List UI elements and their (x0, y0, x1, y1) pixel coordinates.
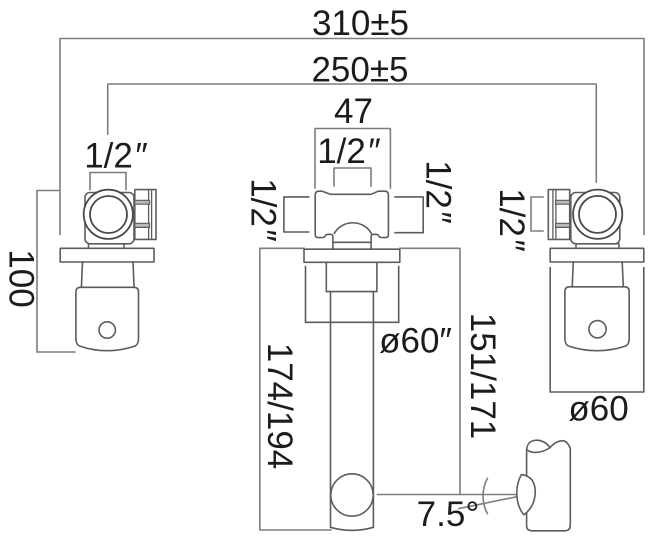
dimension 250±5 bracket (108, 84, 597, 182)
svg-text:ø60: ø60 (568, 390, 628, 429)
right valve handle circle (589, 321, 606, 338)
left valve rim (89, 244, 125, 249)
left valve connector divider (149, 190, 152, 240)
angle 7.5° slanted line (459, 496, 521, 509)
svg-text:1/2″: 1/2″ (492, 188, 531, 252)
dimension 1/2" bracket (left valve top) (90, 173, 126, 190)
right valve body square (571, 193, 620, 244)
right valve wall plate (550, 248, 644, 262)
left valve handle circle (99, 322, 115, 338)
dimension 174/194 lines (260, 248, 331, 530)
svg-text:174/194: 174/194 (260, 343, 299, 470)
T-fitting dome arc (334, 223, 371, 234)
spout tube (331, 292, 374, 531)
right valve knob outer circle (573, 190, 622, 239)
left valve handle (76, 287, 139, 350)
right valve mid body (572, 262, 623, 287)
right valve knob inner circle (579, 196, 616, 233)
angle 7.5° arc (483, 478, 487, 513)
outlet cylinder opening rim (527, 448, 550, 453)
left valve mid body (81, 262, 134, 287)
spout wall plate (304, 249, 400, 262)
svg-text:1/2″: 1/2″ (244, 178, 283, 242)
left valve connector (threaded) (135, 190, 156, 240)
svg-text:100: 100 (2, 249, 41, 307)
svg-text:151/171: 151/171 (463, 313, 502, 440)
svg-text:250±5: 250±5 (311, 51, 408, 90)
dimension 1/2" bracket (center top) (334, 168, 371, 186)
T-fitting right arm (395, 197, 423, 233)
dimension 47 bracket (315, 129, 390, 189)
left valve wall plate (60, 248, 154, 262)
dimension 151/171 lines (400, 248, 460, 494)
right valve connector groove band 2 (556, 223, 570, 227)
right valve 1/2" bracket (531, 197, 543, 231)
dimension 100 bracket (37, 191, 75, 353)
right valve connector (threaded) (548, 190, 569, 240)
svg-text:1/2″: 1/2″ (84, 137, 148, 176)
svg-text:1/2″: 1/2″ (419, 160, 458, 224)
dimension 151/171 bottom reference line (378, 494, 521, 496)
outlet cylinder aerator lens (517, 475, 535, 515)
spout flange (326, 262, 377, 291)
svg-text:ø60″: ø60″ (379, 322, 452, 361)
spout outlet circle (331, 474, 373, 516)
right valve rim (576, 244, 619, 249)
right valve reference box (550, 268, 644, 392)
right valve connector groove band 1 (556, 200, 570, 204)
right valve handle (565, 287, 629, 351)
left valve connector groove band 2 (135, 223, 150, 227)
T-fitting body (315, 191, 388, 242)
right valve connector divider (553, 190, 556, 240)
left valve knob outer circle (84, 190, 133, 239)
left valve connector groove band 1 (135, 200, 150, 204)
svg-text:310±5: 310±5 (312, 4, 409, 43)
svg-text:7.5°: 7.5° (417, 495, 480, 534)
outlet cylinder (side view) (527, 440, 571, 531)
T-fitting neck (333, 242, 371, 248)
T-fitting left arm (284, 197, 309, 232)
spout reference box (306, 267, 399, 323)
svg-text:1/2″: 1/2″ (317, 132, 381, 171)
svg-text:47: 47 (334, 92, 373, 131)
left valve body square (85, 193, 134, 244)
dimension 310±5 bracket (60, 39, 644, 235)
left valve knob inner circle (90, 196, 127, 233)
